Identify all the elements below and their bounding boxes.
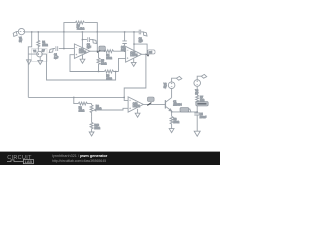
node flag V2: [176, 76, 181, 80]
wire wiper to OA2 plus: [97, 108, 129, 110]
svg-text:1V: 1V: [42, 50, 45, 53]
switch probe S2 body: [148, 97, 155, 101]
label box out: [148, 50, 155, 54]
svg-text:5V: 5V: [19, 40, 22, 43]
ground right column: [194, 131, 200, 136]
node flag right of C3: [93, 40, 97, 44]
svg-text:10kΩ: 10kΩ: [79, 110, 85, 113]
resistor R7: [196, 95, 199, 112]
ground OA3 vminus: [131, 59, 136, 67]
node R4 output side: [104, 51, 105, 52]
node dot chain-R1: [38, 53, 39, 54]
ground under R8: [169, 129, 174, 133]
resistor R8: [170, 116, 173, 128]
wire OA1 vplus pin up: [81, 40, 83, 48]
resistor R4: [105, 50, 126, 53]
wire emitter down to R8: [171, 111, 173, 116]
wire OA3 feedback top: [134, 44, 147, 54]
wire OA3 output down to OA2 minus: [124, 54, 146, 100]
voltage source V1: [18, 28, 24, 34]
resistor R1: [37, 32, 40, 51]
bottom feedback rail: [28, 96, 124, 98]
capacitor C2: [139, 30, 141, 35]
node R5 bottom: [98, 71, 99, 72]
svg-text:LM741: LM741: [79, 51, 87, 54]
svg-text:1μF: 1μF: [139, 40, 144, 43]
wire V3 top to flag: [197, 76, 201, 80]
svg-text:2N3904: 2N3904: [173, 103, 182, 106]
svg-text:http://circuitlab.com/c6aw3f55: http://circuitlab.com/c6aw3f5565645: [52, 159, 106, 163]
wire OA1 plus input from lower row: [70, 55, 105, 72]
chain row wire: [28, 53, 46, 55]
node R6 left on rail: [63, 31, 64, 32]
svg-text:LM741: LM741: [130, 54, 138, 57]
node C4 bottom: [124, 51, 125, 52]
capacitor C5: [194, 112, 200, 131]
wire OA1 output: [90, 50, 105, 52]
faint selection box around source V4: [32, 49, 47, 62]
op-amp OA2: [128, 97, 143, 112]
voltage source V4 (horizontal): [37, 51, 43, 57]
wire collector up: [171, 88, 173, 97]
capacitor C1: [56, 46, 58, 51]
wire chain right leg down to lower rail: [47, 54, 116, 80]
resistor R10: [90, 117, 93, 132]
node R6 right on rail: [97, 31, 98, 32]
wire C3 right lead: [90, 39, 93, 41]
node flag left of C1: [49, 49, 53, 53]
svg-text:5V: 5V: [164, 86, 167, 89]
footer logo waveform: [7, 160, 23, 162]
node OA3 vplus rail: [133, 31, 134, 32]
probe box emitter: [180, 108, 189, 112]
ground OA1 vminus: [80, 55, 85, 63]
wire OA3 vplus pin: [133, 32, 135, 50]
voltage source V2: [168, 82, 175, 89]
node feedback tee: [133, 43, 134, 44]
svg-text:10kΩ: 10kΩ: [101, 63, 107, 66]
probe box R7 text: [197, 103, 206, 105]
wire C1 row to OA1 minus input: [53, 48, 74, 50]
wire OA2 output to base: [143, 103, 165, 105]
node OA1 vplus rail: [82, 31, 83, 32]
node OA3 output: [145, 54, 146, 55]
node output OA1: [97, 51, 98, 52]
resistor R5: [97, 51, 100, 71]
switch probe S2 lever: [147, 103, 151, 106]
svg-text:lynnhthanh321 / pwm generator: lynnhthanh321 / pwm generator: [52, 154, 108, 158]
svg-text:1μF: 1μF: [121, 48, 126, 51]
wire OA3 output: [142, 53, 146, 55]
svg-text:10kΩ: 10kΩ: [106, 77, 112, 80]
wire junction R2 branch: [73, 97, 74, 98]
op-amp OA1: [74, 44, 90, 59]
wire R6 feedback loop: [64, 23, 97, 32]
ground OA2 vminus: [135, 109, 140, 117]
svg-text:LM741: LM741: [133, 105, 141, 108]
svg-text:V4: V4: [33, 50, 37, 53]
svg-text:10kΩ: 10kΩ: [106, 57, 112, 60]
resistor R2: [78, 102, 91, 105]
capacitor C3: [88, 37, 90, 42]
capacitor C4: [122, 32, 126, 51]
footer logo LAB box: [23, 159, 33, 163]
node lower rail riser: [115, 71, 116, 72]
node flag at OA3 output: [146, 54, 149, 57]
node bypass row: [82, 39, 83, 40]
node at rail x31.7: [31, 31, 32, 32]
node flag emitter probe: [187, 109, 191, 112]
node flag V3: [201, 74, 206, 78]
wire down from rail to R2: [74, 97, 79, 103]
resistor R3: [105, 70, 119, 73]
node C1 row: [63, 48, 64, 49]
wire rail to bypass row: [82, 32, 87, 40]
node right column junction: [197, 111, 198, 112]
wire V2 top to flag: [172, 78, 177, 82]
svg-text:10kΩ: 10kΩ: [42, 44, 48, 47]
wire R6 right leg down to output node: [96, 32, 98, 51]
wire C2 right lead: [141, 31, 144, 33]
ground under chain: [38, 57, 43, 65]
node R1 top: [38, 31, 39, 32]
wire riser to OA3 plus: [119, 58, 126, 71]
node lower rail joins OA2 minus riser: [124, 97, 125, 98]
op-amp OA3: [126, 46, 142, 62]
node flag right of C2: [143, 32, 147, 36]
node emitter: [171, 111, 172, 112]
switch probe S1 lever: [97, 50, 101, 53]
wire rail down to C1 row: [63, 32, 65, 49]
svg-text:LAB: LAB: [25, 160, 33, 164]
svg-text:out: out: [149, 51, 153, 54]
footer bar: [0, 152, 220, 165]
pot R9 wiper arrow: [94, 109, 96, 111]
node flag arrow on left vertical: [27, 60, 32, 64]
potentiometer R9: [90, 104, 93, 117]
svg-text:1μF: 1μF: [54, 57, 59, 60]
probe box R7 node: [196, 102, 208, 106]
svg-text:100Ω: 100Ω: [173, 121, 179, 124]
wire emitter to right column: [172, 111, 198, 113]
wire V1 branch down-left jog: [28, 32, 31, 98]
voltage source V3: [194, 80, 201, 87]
ground under R10: [89, 132, 94, 136]
switch probe S1 body: [99, 46, 105, 50]
wire main top rail: [25, 31, 139, 33]
node C4 top rail: [124, 31, 125, 32]
transistor Q1: [165, 98, 171, 111]
wire V3 to R7: [196, 86, 198, 95]
node flag at V1 left: [13, 32, 18, 37]
svg-text:100nF: 100nF: [200, 116, 207, 119]
svg-text:10kΩ: 10kΩ: [94, 127, 100, 130]
resistor R6: [75, 21, 84, 24]
svg-text:70.2kΩ: 70.2kΩ: [77, 28, 85, 31]
svg-text:1μF: 1μF: [87, 46, 92, 49]
